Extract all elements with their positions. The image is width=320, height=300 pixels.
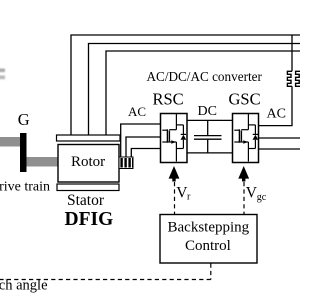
svg-text:Drive train: Drive train: [0, 180, 50, 195]
svg-text:AC: AC: [267, 107, 286, 122]
svg-text:Rotor: Rotor: [71, 154, 105, 170]
svg-text:AC: AC: [128, 104, 146, 119]
svg-text:RSC: RSC: [153, 90, 184, 109]
svg-text:G: G: [18, 110, 30, 129]
svg-text:gc: gc: [257, 192, 267, 203]
svg-text:GSC: GSC: [229, 90, 261, 109]
svg-text:Stator: Stator: [67, 192, 105, 209]
svg-text:pitch angle: pitch angle: [0, 278, 48, 294]
svg-text:DFIG: DFIG: [65, 209, 114, 230]
svg-text:Backstepping: Backstepping: [168, 220, 250, 236]
svg-text:AC/DC/AC converter: AC/DC/AC converter: [147, 69, 263, 84]
svg-text:Control: Control: [185, 238, 231, 254]
svg-text:r: r: [187, 192, 191, 203]
svg-text:DC: DC: [198, 104, 217, 119]
